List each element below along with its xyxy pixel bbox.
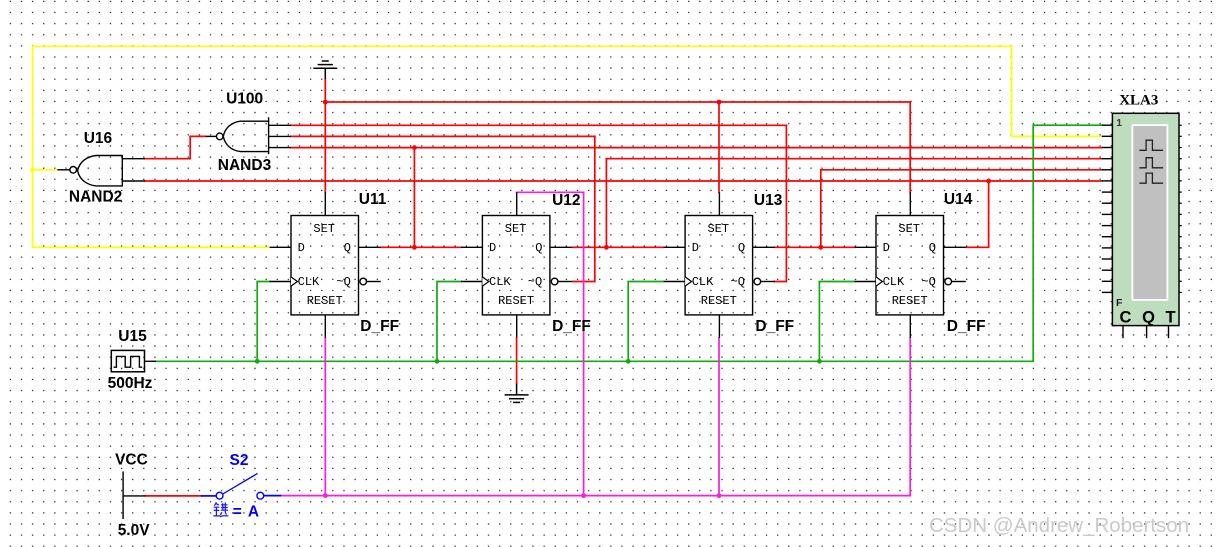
- wire red NAND2 in1 from NAND3 output riser: [145, 158, 190, 160]
- wire red row A: NAND3 in1 to U13 ~Q riser: [291, 124, 786, 126]
- pin U16 output lead: [57, 169, 69, 171]
- svg-text:D: D: [298, 241, 305, 255]
- node red junction row C U11 Q: [412, 145, 417, 150]
- pin U12 CLK wedge: [482, 277, 488, 286]
- svg-text:SET: SET: [505, 222, 527, 236]
- ground GND2 below U12 RESET: [505, 384, 529, 403]
- svg-text:SET: SET: [313, 222, 335, 236]
- flip-flop U11 D_FF body: [270, 192, 381, 338]
- svg-text:A: A: [248, 504, 259, 521]
- svg-text:Q: Q: [1142, 309, 1155, 327]
- pin U11 D lead: [270, 246, 291, 248]
- label S2 key glyph 键 (hand drawn): [213, 502, 228, 516]
- waveform icon 1 inside XLA3: [1139, 140, 1163, 150]
- svg-text:U13: U13: [754, 192, 783, 209]
- svg-text:RESET: RESET: [892, 294, 928, 308]
- transistor-free switch S2 contacts: [216, 473, 263, 499]
- svg-text:CLK: CLK: [489, 275, 511, 289]
- svg-text:SET: SET: [707, 222, 729, 236]
- svg-text:SET: SET: [898, 222, 920, 236]
- wire red U13 ~Q riser to row A: [775, 125, 787, 281]
- svg-text:~Q: ~Q: [528, 275, 542, 289]
- node green junction U11 CLK: [255, 359, 260, 364]
- pin U100 input 1 lead: [269, 124, 291, 126]
- pin XLA3 left input stubs 1-16: [1102, 125, 1113, 292]
- wire red U12 ~Q riser to row B: [573, 136, 595, 281]
- pin S2 pole circle: [216, 492, 223, 499]
- svg-text:5.0V: 5.0V: [118, 522, 151, 539]
- pin U13 D lead: [664, 246, 685, 248]
- pin U100 output bubble: [216, 133, 223, 140]
- pin U14 CLK lead: [855, 281, 876, 283]
- pin U12 SET lead: [516, 192, 518, 215]
- pin U13 notQ bubble: [754, 278, 761, 285]
- wire red row E: U13 Q riser to XLA3 pin5: [821, 169, 1102, 171]
- waveform icon 3 inside XLA3: [1139, 173, 1163, 183]
- flip-flop U12 D_FF body: [461, 192, 572, 338]
- pin U11 notQ bubble: [360, 278, 367, 285]
- wire yellow branch to U11 D input: [33, 170, 270, 248]
- waveform icon 2 inside XLA3: [1139, 158, 1163, 168]
- flip-flop U14 D_FF body: [855, 192, 966, 338]
- svg-text:VCC: VCC: [115, 452, 148, 469]
- pin U12 notQ bubble: [551, 278, 558, 285]
- svg-text:U14: U14: [944, 191, 973, 208]
- node red junction row F U14 Q: [986, 179, 991, 184]
- wire red U14 Q riser to row F: [966, 181, 988, 247]
- svg-text:D: D: [692, 241, 699, 255]
- pin U13 CLK wedge: [685, 277, 691, 286]
- wire red U11 Q to U12 D with riser to row C: [381, 148, 461, 248]
- pin U14 RESET lead: [909, 315, 911, 338]
- wire magenta riser U13 RESET: [718, 338, 720, 496]
- wire green riser to U11 CLK: [257, 282, 270, 362]
- pin U100 input 2 lead: [269, 135, 291, 137]
- svg-text:~Q: ~Q: [731, 275, 745, 289]
- wire green riser to U12 CLK: [437, 282, 461, 362]
- svg-text:CLK: CLK: [692, 275, 714, 289]
- pin U13 RESET lead: [718, 315, 720, 338]
- svg-text:U11: U11: [359, 191, 387, 208]
- svg-text:RESET: RESET: [498, 294, 534, 308]
- wire blue switch S2 right lead to magenta bus: [264, 495, 281, 497]
- svg-text:U12: U12: [552, 192, 580, 209]
- svg-text:~Q: ~Q: [921, 275, 935, 289]
- wire red NAND3 output stub run: [190, 135, 206, 137]
- pin XLA3 bottom stubs C Q T: [1123, 326, 1169, 339]
- pin U11 SET lead: [324, 192, 326, 215]
- op-amp U100 NAND3 gate body (mirrored): [206, 117, 291, 154]
- pin S2 throw circle: [257, 492, 264, 499]
- pin U16 output bubble: [70, 167, 77, 174]
- svg-text:U16: U16: [84, 130, 113, 147]
- wire magenta riser U11 RESET: [324, 338, 326, 496]
- pin U13 notQ lead: [761, 281, 775, 283]
- pin U12 CLK lead: [461, 281, 482, 283]
- svg-text:Q: Q: [535, 241, 542, 255]
- pin U13 SET lead: [718, 192, 720, 215]
- svg-text:D_FF: D_FF: [552, 318, 591, 335]
- wire red U12 Q to U13 D with riser to row D: [573, 159, 664, 248]
- pin U13 CLK lead: [664, 281, 685, 283]
- pin U14 SET lead: [909, 192, 911, 215]
- svg-text:=: =: [233, 504, 242, 521]
- pin U14 CLK wedge: [876, 277, 882, 286]
- pin U100 output lead: [206, 135, 217, 137]
- wire red row C: NAND3 in3 through U11 Q junction to XLA3 pin3: [291, 147, 1102, 149]
- svg-text:Q: Q: [344, 241, 351, 255]
- switch S2 lever: [223, 473, 258, 494]
- svg-text:C: C: [1120, 309, 1132, 327]
- pin U11 notQ lead: [367, 281, 381, 283]
- svg-text:CLK: CLK: [883, 275, 905, 289]
- node magenta junction U13 RESET: [717, 493, 722, 498]
- node red junction U13 Q tee: [818, 245, 823, 250]
- wire red U12 RESET to lower ground: [516, 338, 518, 383]
- node magenta junction U11 RESET: [323, 493, 328, 498]
- pin U14 Q lead: [944, 246, 966, 248]
- pin U12 Q lead: [550, 246, 572, 248]
- svg-text:RESET: RESET: [307, 294, 343, 308]
- pin U16 input A lead: [122, 158, 145, 160]
- wire red ground net row: top ground to U13 U14 SET: [325, 79, 910, 192]
- wire red row B: NAND3 in2 to U12 ~Q riser: [291, 135, 595, 137]
- wire blue switch S2 left lead: [202, 495, 216, 497]
- node red junction U11 Q tee: [412, 245, 417, 250]
- pin U12 RESET lead: [516, 315, 518, 338]
- pin U12 D lead: [461, 246, 482, 248]
- svg-text:500Hz: 500Hz: [108, 375, 153, 392]
- wire green clock bus from U15 to XLA3 pin1: [156, 125, 1102, 361]
- wire red row D: U12 Q riser to XLA3 pin4: [606, 158, 1101, 160]
- svg-text:S2: S2: [230, 452, 249, 469]
- pin U14 notQ bubble: [945, 278, 952, 285]
- wire red VCC to switch S2: [146, 495, 202, 497]
- svg-text:Q: Q: [929, 241, 936, 255]
- svg-text:RESET: RESET: [701, 294, 737, 308]
- pin U11 CLK lead: [270, 281, 291, 283]
- node green junction U12 CLK: [435, 359, 440, 364]
- node red junction U11 SET ground tee: [323, 100, 328, 105]
- node red junction U13 SET ground tee: [717, 100, 722, 105]
- wire yellow net NAND2-output loop: left vertical, top run to XLA3 pin2, bottom run to U11 D: [33, 46, 1102, 170]
- svg-text:D: D: [883, 241, 890, 255]
- wire green riser to U13 CLK: [628, 282, 664, 362]
- pin XLA3 right edge ticks: [1179, 125, 1182, 292]
- pin U11 CLK wedge: [291, 277, 297, 286]
- svg-text:CSDN @Andrew_Robertson: CSDN @Andrew_Robertson: [929, 514, 1189, 537]
- svg-text:NAND3: NAND3: [218, 157, 272, 174]
- wire red riser NAND3 output down to NAND2 in1: [189, 136, 191, 158]
- svg-text:F: F: [1116, 297, 1123, 309]
- waveform glyph inside U15: [114, 356, 143, 367]
- pin U14 D lead: [855, 246, 876, 248]
- node green junction U14 CLK: [817, 359, 822, 364]
- pin U15 output lead: [145, 360, 157, 362]
- op-amp XLA3 logic analyser body: [1112, 113, 1179, 325]
- node yellow junction at NAND2 output tee: [30, 167, 35, 172]
- svg-text:NAND2: NAND2: [69, 189, 122, 206]
- wire red row F: NAND2 in2 to U14 Q junction to XLA3 pin6: [145, 180, 1102, 182]
- svg-text:1: 1: [1116, 117, 1122, 129]
- pin U14 notQ lead: [952, 281, 966, 283]
- wire magenta S2 bus to U14 RESET: [281, 338, 911, 496]
- ground GND1 top (above U11 SET net): [313, 61, 337, 79]
- capacitor-free clock source U15 body: [111, 350, 156, 371]
- pin U12 notQ lead: [558, 281, 572, 283]
- pin U11 Q lead: [359, 246, 381, 248]
- pin U11 RESET lead: [324, 315, 326, 338]
- svg-text:~Q: ~Q: [336, 275, 350, 289]
- svg-text:U15: U15: [118, 328, 147, 345]
- svg-text:D: D: [489, 241, 496, 255]
- power VCC symbol bar: [123, 472, 145, 520]
- wire red U13 Q to U14 D with riser to row E: [775, 170, 855, 248]
- pin U16 input B lead: [122, 180, 145, 182]
- svg-text:Q: Q: [738, 241, 745, 255]
- op-amp U16 NAND2 gate body (mirrored): [57, 155, 145, 187]
- svg-text:CLK: CLK: [298, 275, 320, 289]
- wire VCC lead black: [123, 495, 145, 497]
- svg-text:XLA3: XLA3: [1119, 93, 1158, 109]
- svg-text:D_FF: D_FF: [755, 318, 794, 335]
- pin U100 input 3 lead: [269, 147, 291, 149]
- wire green riser to U14 CLK: [819, 282, 854, 362]
- node red junction U12 Q tee: [604, 245, 609, 250]
- node green junction U13 CLK: [626, 359, 631, 364]
- pin U13 Q lead: [753, 246, 775, 248]
- node magenta junction U12 SET riser: [581, 493, 586, 498]
- svg-text:D_FF: D_FF: [360, 318, 399, 335]
- flip-flop U13 D_FF body: [664, 192, 775, 338]
- svg-text:U100: U100: [226, 91, 263, 108]
- svg-text:D_FF: D_FF: [947, 318, 986, 335]
- svg-text:T: T: [1166, 309, 1176, 327]
- wire magenta riser U12 SET via top run: [517, 192, 584, 495]
